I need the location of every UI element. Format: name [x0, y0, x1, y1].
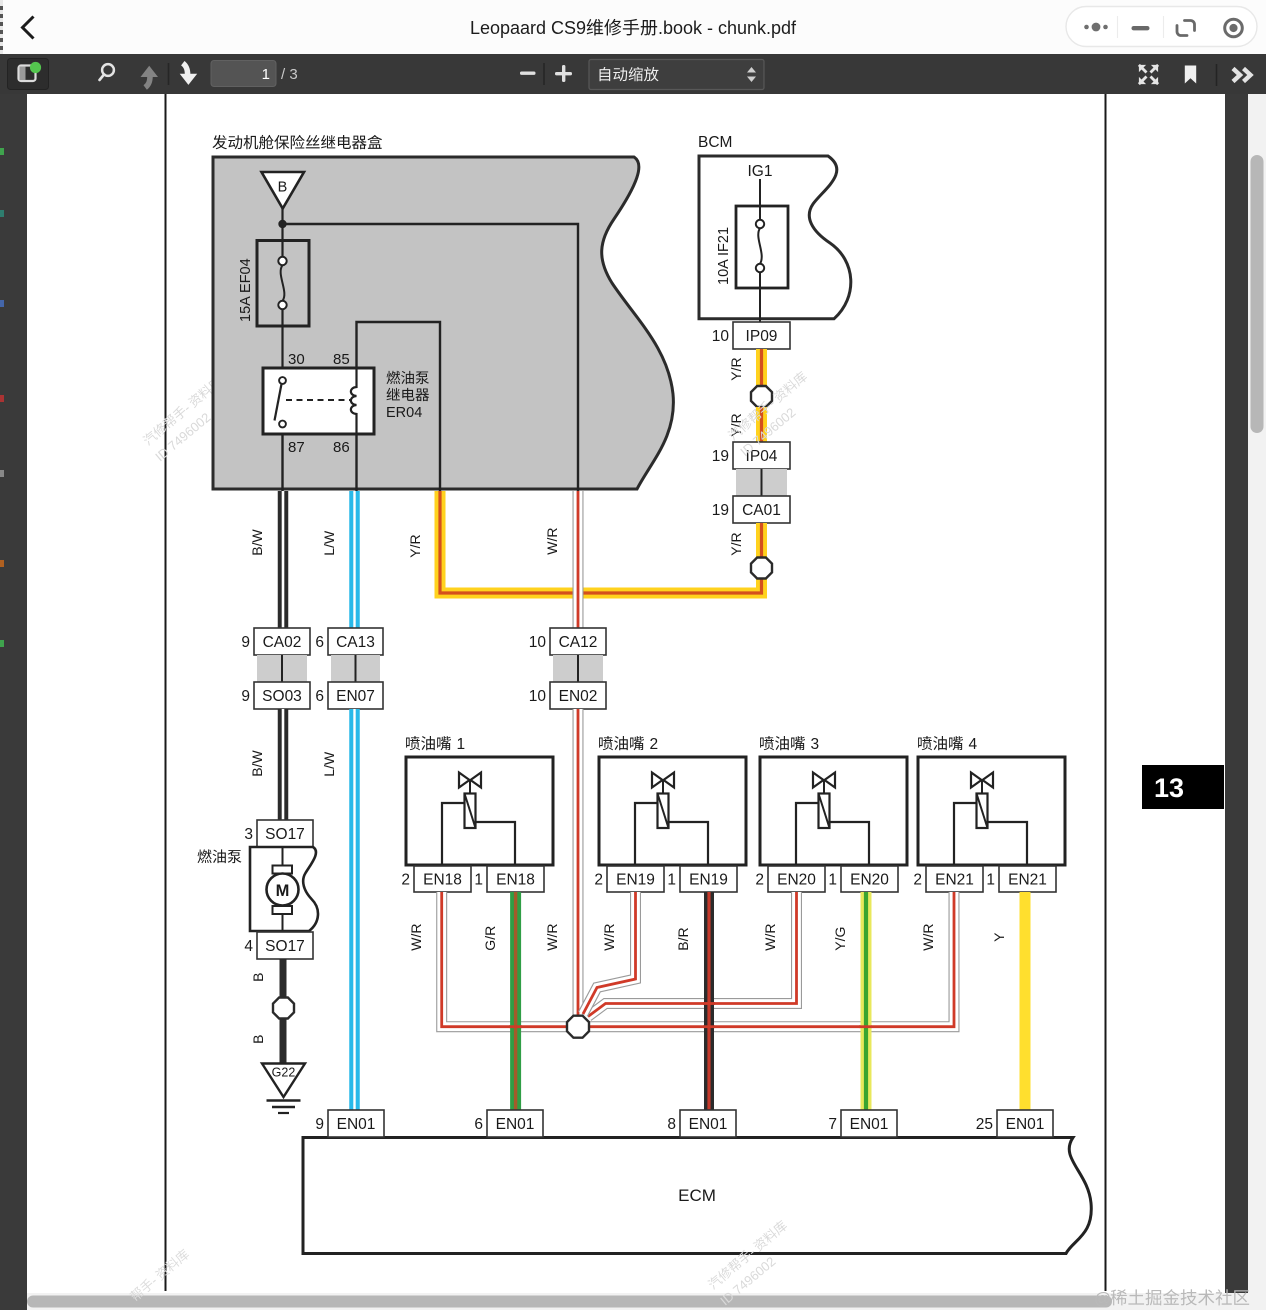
wire Y/R CA01 segment	[756, 523, 767, 558]
injector 3 internal wires	[796, 803, 819, 865]
fuse EF04 15A	[257, 241, 309, 327]
back chevron	[23, 17, 34, 39]
connector 1 EN19	[680, 866, 737, 892]
svg-text:CA12: CA12	[559, 634, 598, 651]
svg-text:6: 6	[474, 1116, 483, 1133]
wire G/R	[510, 892, 521, 1110]
wire B/W lower	[278, 709, 289, 820]
wire Y/R main run	[440, 491, 762, 593]
watermark left	[141, 374, 225, 448]
svg-text:2: 2	[401, 872, 410, 889]
svg-text:B: B	[278, 180, 288, 196]
svg-text:10: 10	[712, 328, 730, 345]
svg-text:EN21: EN21	[935, 872, 974, 889]
connector 9 CA02	[254, 628, 310, 655]
svg-text:M: M	[276, 882, 290, 900]
svg-text:ER04: ER04	[386, 405, 422, 421]
svg-text:EN21: EN21	[1008, 872, 1047, 889]
connector 19 IP04	[733, 442, 790, 469]
svg-text:Y/R: Y/R	[728, 532, 744, 555]
wire relay 85 to Y/R drop	[357, 322, 441, 491]
svg-text:9: 9	[315, 1116, 324, 1133]
svg-text:B/W: B/W	[249, 528, 265, 555]
relay dashed link	[286, 399, 350, 401]
svg-text:CA02: CA02	[263, 634, 302, 651]
svg-text:Y/G: Y/G	[832, 927, 848, 951]
page number input	[211, 61, 276, 87]
svg-text:2: 2	[755, 872, 764, 889]
page up arrow (disabled)	[141, 66, 159, 77]
relay coil	[351, 368, 357, 434]
injector 4 valve symbol	[971, 773, 982, 788]
svg-text:9: 9	[241, 634, 250, 651]
svg-text:4: 4	[244, 938, 253, 955]
svg-text:1: 1	[262, 66, 270, 83]
svg-text:EN02: EN02	[559, 688, 598, 705]
svg-text:6: 6	[315, 634, 324, 651]
wire junction to W/R drop	[283, 224, 579, 491]
title bar	[0, 0, 1266, 54]
svg-text:Y/R: Y/R	[728, 357, 744, 380]
toolbar	[0, 54, 1266, 94]
svg-text:SO17: SO17	[265, 938, 305, 955]
svg-text:EN20: EN20	[850, 872, 889, 889]
inline connector CA12-EN02	[553, 655, 603, 682]
svg-text:EN01: EN01	[850, 1116, 889, 1133]
svg-text:EN19: EN19	[616, 872, 655, 889]
injector 1 box	[406, 736, 420, 750]
svg-text:10: 10	[529, 634, 547, 651]
watermark middle	[726, 369, 810, 443]
injector 1 valve symbol	[459, 773, 470, 788]
svg-text:9: 9	[241, 688, 250, 705]
svg-text:.book - chunk.pdf: .book - chunk.pdf	[658, 18, 797, 38]
zoom in	[555, 72, 572, 75]
watermark bottom-left	[128, 1247, 192, 1304]
wire Y/R BCM segment 1	[756, 349, 767, 386]
wire W/R injector 1	[442, 892, 567, 1027]
injector 3 box	[760, 736, 774, 750]
wire B/W upper	[278, 491, 289, 628]
injector 1 internal wires	[442, 803, 465, 865]
watermark bottom	[706, 1218, 790, 1292]
svg-text:EN18: EN18	[496, 872, 535, 889]
connector 6 CA13	[328, 628, 383, 655]
connector 10 EN02	[550, 682, 606, 709]
svg-text:19: 19	[712, 448, 729, 465]
svg-text:W/R: W/R	[762, 923, 778, 950]
svg-text:G22: G22	[272, 1066, 296, 1080]
svg-text:SO03: SO03	[262, 688, 302, 705]
wire relay 87 down	[281, 434, 283, 491]
connector 2 EN18	[414, 866, 471, 892]
svg-text:EN07: EN07	[336, 688, 375, 705]
svg-text:W/R: W/R	[920, 923, 936, 950]
connector 2 EN19	[607, 866, 664, 892]
svg-text:B: B	[250, 1035, 266, 1044]
wire B segment 1	[280, 959, 287, 998]
connector 4 SO17	[257, 932, 313, 959]
svg-text:L/W: L/W	[321, 751, 337, 777]
svg-text:Y/R: Y/R	[728, 413, 744, 436]
connector 1 EN18	[487, 866, 544, 892]
svg-text:4: 4	[969, 736, 978, 753]
wire B to fuse EF04	[281, 209, 283, 241]
engine compartment fuse/relay box	[213, 157, 673, 489]
connector 10 IP09	[733, 322, 790, 349]
svg-text:1: 1	[986, 872, 995, 889]
page frame left border	[165, 94, 167, 1291]
connector 25 EN01	[997, 1110, 1053, 1137]
wire W/R main upper	[573, 491, 584, 628]
injector 4 internal wires	[954, 803, 977, 865]
svg-text:Y/R: Y/R	[407, 534, 423, 557]
injector 2 box	[599, 736, 613, 750]
svg-text:EN18: EN18	[423, 872, 462, 889]
svg-text:@: @	[1094, 1289, 1111, 1308]
fullscreen icon	[1139, 65, 1147, 73]
connector 2 EN20	[768, 866, 825, 892]
wire IG1 to fuse IF21	[759, 179, 761, 220]
svg-text:EN19: EN19	[689, 872, 728, 889]
svg-text:30: 30	[288, 351, 305, 368]
svg-text:CA01: CA01	[742, 502, 781, 519]
ground G22	[262, 1064, 305, 1098]
node octagon A	[751, 386, 772, 407]
injector 4 solenoid	[977, 794, 988, 829]
wire B segment 2	[280, 1019, 287, 1064]
svg-text:B: B	[250, 973, 266, 982]
left window sliver	[0, 94, 6, 1310]
wire W/R injector 4	[1022, 887, 1033, 898]
inline connector CA13-EN07	[331, 655, 380, 682]
svg-text:1: 1	[828, 872, 837, 889]
fuel pump relay ER04	[263, 368, 374, 434]
fuel pump motor M	[273, 866, 293, 874]
injector 2 valve symbol	[652, 773, 663, 788]
injector 4 box	[918, 736, 932, 750]
svg-text:EN20: EN20	[777, 872, 816, 889]
svg-text:85: 85	[333, 351, 350, 368]
svg-text:19: 19	[712, 502, 729, 519]
svg-text:8: 8	[667, 1116, 676, 1133]
connector 6 EN07	[328, 682, 383, 709]
injector 2 solenoid	[658, 794, 669, 829]
svg-text:W/R: W/R	[601, 923, 617, 950]
injector 3 solenoid	[819, 794, 830, 829]
battery feed connector B	[262, 172, 305, 209]
vertical scrollbar	[1248, 94, 1266, 1310]
wire L/W lower	[349, 709, 360, 1110]
svg-text:EN01: EN01	[689, 1116, 728, 1133]
wire B/R	[704, 892, 714, 1110]
svg-text:10A IF21: 10A IF21	[716, 227, 732, 285]
svg-text:CA13: CA13	[336, 634, 375, 651]
inline connector IP04-CA01	[736, 469, 787, 496]
connector 9 EN01	[328, 1110, 384, 1137]
svg-text:IG1: IG1	[748, 163, 773, 180]
connector 1 EN20	[841, 866, 898, 892]
connector 3 SO17	[257, 820, 313, 847]
svg-text:2: 2	[913, 872, 922, 889]
svg-text:7: 7	[828, 1116, 837, 1133]
node octagon junction	[567, 1016, 589, 1038]
svg-text:6: 6	[315, 688, 324, 705]
connector 8 EN01	[680, 1110, 736, 1137]
sidebar toggle button	[8, 59, 49, 90]
bookmark icon	[1185, 66, 1196, 84]
svg-text:3: 3	[811, 736, 820, 753]
relay switch contact	[279, 377, 286, 384]
svg-text:25: 25	[976, 1116, 993, 1133]
svg-text:Y: Y	[991, 932, 1007, 942]
svg-text:1: 1	[474, 872, 483, 889]
wire Y	[1020, 892, 1031, 1110]
inline connector CA02-SO03	[257, 655, 307, 682]
svg-text:13: 13	[1154, 773, 1184, 803]
wire W/R injector 2	[583, 892, 636, 1014]
wire L/W upper	[349, 491, 360, 628]
svg-text:Leopaard CS9: Leopaard CS9	[470, 18, 586, 38]
search icon	[102, 64, 114, 76]
BCM box	[699, 156, 851, 319]
svg-text:EN01: EN01	[337, 1116, 376, 1133]
wire relay 86 down	[355, 434, 357, 491]
svg-text:B/R: B/R	[675, 927, 691, 950]
connector 19 CA01	[733, 496, 790, 523]
wire W/R main lower	[573, 709, 584, 1016]
connector 9 SO03	[254, 682, 310, 709]
injector 3 valve symbol	[813, 773, 824, 788]
svg-text:SO17: SO17	[265, 826, 305, 843]
svg-text:EN01: EN01	[1006, 1116, 1045, 1133]
svg-text:L/W: L/W	[321, 530, 337, 556]
svg-text:15A EF04: 15A EF04	[238, 258, 254, 322]
svg-text:W/R: W/R	[544, 527, 560, 554]
svg-text:B/W: B/W	[249, 749, 265, 776]
svg-text:2: 2	[594, 872, 603, 889]
zoom out	[520, 72, 536, 75]
node octagon C	[273, 998, 294, 1019]
wire crossing patches	[509, 1025, 522, 1028]
svg-text:ECM: ECM	[678, 1186, 716, 1205]
svg-text:EN01: EN01	[496, 1116, 535, 1133]
connector 6 EN01	[487, 1110, 543, 1137]
svg-text:87: 87	[288, 439, 305, 456]
more tools chevrons	[1233, 69, 1240, 82]
svg-text:W/R: W/R	[544, 923, 560, 950]
fuel pump box	[250, 847, 318, 931]
connector 10 CA12	[550, 628, 606, 655]
svg-text:1: 1	[667, 872, 676, 889]
wire Y/R BCM segment 2	[756, 407, 767, 442]
fuse IF21 10A	[736, 206, 788, 288]
connector 2 EN21	[926, 866, 983, 892]
zoom dropdown	[589, 60, 764, 90]
svg-text:BCM: BCM	[698, 134, 732, 151]
horizontal scrollbar	[27, 1293, 1248, 1310]
wire fuse to relay pin 30	[281, 326, 283, 368]
injector 2 internal wires	[635, 803, 658, 865]
svg-text:W/R: W/R	[408, 923, 424, 950]
page down arrow	[180, 74, 198, 85]
svg-text:86: 86	[333, 439, 350, 456]
svg-text:2: 2	[650, 736, 659, 753]
svg-text:3: 3	[244, 826, 253, 843]
connector 7 EN01	[841, 1110, 897, 1137]
wire fuse IF21 to pin IP09	[759, 272, 761, 322]
svg-text:1: 1	[457, 736, 466, 753]
wire Y/G	[861, 892, 872, 1110]
svg-text:/ 3: / 3	[281, 66, 298, 83]
window controls pill	[1066, 7, 1257, 47]
node junction dot	[278, 220, 286, 228]
injector 1 solenoid	[465, 794, 476, 829]
connector 1 EN21	[999, 866, 1056, 892]
page number badge 13	[1142, 765, 1224, 809]
wire W/R injector 3	[588, 892, 797, 1017]
svg-text:IP09: IP09	[746, 328, 778, 345]
svg-text:10: 10	[529, 688, 547, 705]
ECM box	[303, 1138, 1091, 1254]
svg-text:G/R: G/R	[482, 926, 498, 951]
page frame right border	[1105, 94, 1107, 1291]
